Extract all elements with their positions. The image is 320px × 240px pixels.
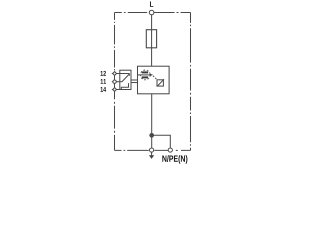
mechanical linkage to SPD bbox=[131, 79, 138, 81]
junction dot bbox=[150, 133, 154, 137]
fuse F bbox=[146, 30, 156, 48]
terminal 11 circle bbox=[113, 80, 116, 83]
label 14 bbox=[101, 87, 107, 92]
SPD box U1 bbox=[138, 66, 170, 94]
disconnector line with arrow bbox=[138, 74, 151, 76]
contact 14 path bbox=[121, 83, 128, 89]
remote contact box bbox=[120, 70, 131, 89]
disconnector dashed circle bbox=[140, 70, 150, 80]
disconnector electrode bars bbox=[142, 71, 148, 73]
enclosure dash-dot boundary bottom bbox=[115, 149, 191, 151]
enclosure dash-dot boundary top bbox=[115, 12, 191, 14]
dashed link arrow to varistor bbox=[153, 76, 157, 80]
node: bottom left terminal (to earth) bbox=[150, 148, 154, 152]
enclosure dash-dot boundary right bbox=[190, 13, 192, 151]
terminal 12 lead bbox=[112, 73, 130, 75]
contact 12 tick bbox=[128, 74, 130, 76]
terminal 14 lead bbox=[112, 89, 122, 91]
node: bottom right terminal bbox=[168, 148, 172, 152]
terminal L bbox=[149, 10, 154, 15]
label 11 bbox=[101, 79, 106, 84]
wire SPD box bottom to bottom terminal bbox=[151, 94, 153, 148]
varistor RV bbox=[157, 80, 163, 86]
earth arrow bbox=[151, 152, 153, 156]
enclosure dash-dot boundary left bbox=[114, 13, 116, 151]
terminal 14 diamond bbox=[113, 88, 117, 92]
contact lever bbox=[122, 74, 129, 82]
label 12 bbox=[101, 71, 106, 76]
wire L terminal to fuse and SPD box top bbox=[151, 15, 153, 66]
terminal 12 diamond bbox=[113, 72, 117, 76]
terminal 11 lead bbox=[112, 81, 122, 83]
label L bbox=[150, 2, 153, 7]
label N/PE(N) bbox=[162, 155, 187, 164]
wire branch junction to right bottom terminal bbox=[152, 135, 171, 148]
